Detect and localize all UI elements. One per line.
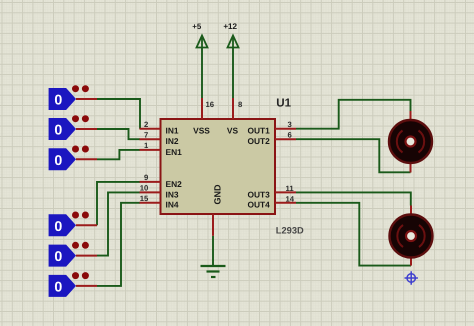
pin number 16 <box>206 100 215 109</box>
wire W3 probe3 to EN1 <box>97 150 140 159</box>
pin number 3 <box>288 120 292 129</box>
svg-text:0: 0 <box>54 123 62 139</box>
pin name VSS <box>193 126 210 136</box>
svg-text:GND: GND <box>213 184 223 205</box>
pin number 8 <box>238 100 243 109</box>
power symbol +12 arrow <box>228 36 239 48</box>
pin 8 stub VS <box>232 98 234 119</box>
svg-text:16: 16 <box>206 100 215 109</box>
logic state probe LS3 <box>49 146 97 171</box>
pin 11 stub OUT3 <box>275 191 296 193</box>
pin 1 stub EN1 <box>140 149 161 151</box>
svg-text:0: 0 <box>54 249 62 265</box>
wire OUT2 to motor1 bottom <box>296 139 411 172</box>
op-amp U1 body L293D <box>161 119 276 214</box>
svg-text:3: 3 <box>288 120 292 129</box>
logic state probe LS4 <box>49 212 97 237</box>
svg-text:0: 0 <box>54 219 62 235</box>
svg-text:OUT4: OUT4 <box>247 200 270 210</box>
svg-text:IN2: IN2 <box>166 136 179 146</box>
svg-text:IN3: IN3 <box>166 189 179 199</box>
wire +5 to VSS <box>201 48 203 100</box>
wire +12 to VS <box>232 48 234 100</box>
reference designator U1 <box>276 96 291 109</box>
svg-text:OUT2: OUT2 <box>247 136 270 146</box>
wire OUT4 to motor2 bottom <box>296 203 411 266</box>
wire W6 probe6 to IN4 <box>97 203 140 286</box>
value label L293D <box>276 225 304 235</box>
pin 2 stub IN1 <box>140 128 161 130</box>
svg-text:15: 15 <box>140 194 149 203</box>
pin number 2 <box>144 120 148 129</box>
svg-text:7: 7 <box>144 131 148 140</box>
wire W2 probe2 to IN2 <box>97 129 140 139</box>
pin name GND rotated <box>213 184 223 205</box>
svg-text:8: 8 <box>238 100 243 109</box>
power label +5 <box>192 22 202 31</box>
wire W5 probe5 to IN3 <box>97 192 140 255</box>
pin GND stub <box>212 214 214 236</box>
logic state probe LS5 <box>49 242 97 267</box>
pin name EN2 <box>166 179 183 189</box>
pin 10 stub IN3 <box>140 191 161 193</box>
power label +12 <box>223 22 237 31</box>
svg-text:VSS: VSS <box>193 126 210 136</box>
svg-text:+5: +5 <box>192 22 202 31</box>
pin name IN3 <box>166 189 179 199</box>
svg-text:0: 0 <box>54 93 62 109</box>
svg-text:1: 1 <box>144 141 149 150</box>
pin name IN1 <box>166 126 179 136</box>
svg-text:EN2: EN2 <box>166 179 183 189</box>
svg-text:VS: VS <box>227 126 239 136</box>
svg-text:14: 14 <box>286 194 295 203</box>
svg-text:2: 2 <box>144 120 148 129</box>
pin name EN1 <box>166 147 183 157</box>
svg-text:OUT1: OUT1 <box>247 126 270 136</box>
pin number 15 <box>140 194 149 203</box>
svg-text:IN4: IN4 <box>166 200 179 210</box>
pin name IN4 <box>166 200 179 210</box>
pin name OUT3 <box>247 189 270 199</box>
wire W4 probe4 to EN2 <box>97 182 140 225</box>
pin 16 stub VSS <box>201 98 203 119</box>
pin name OUT4 <box>247 200 270 210</box>
pin number 6 <box>288 131 292 140</box>
power symbol +5 arrow <box>197 36 208 48</box>
pin name IN2 <box>166 136 179 146</box>
wire W1 probe1 to IN1 <box>97 99 140 129</box>
pin 7 stub IN2 <box>140 138 161 140</box>
svg-text:IN1: IN1 <box>166 126 179 136</box>
pin 15 stub IN4 <box>140 202 161 204</box>
svg-text:0: 0 <box>54 153 62 169</box>
ground symbol <box>201 266 226 277</box>
logic state probe LS1 <box>49 85 97 110</box>
svg-text:L293D: L293D <box>276 225 304 235</box>
svg-text:11: 11 <box>286 184 295 193</box>
svg-text:10: 10 <box>140 184 149 193</box>
wire OUT3 to motor2 top <box>296 192 411 205</box>
motor M1 <box>389 111 432 173</box>
logic state probe LS2 <box>49 115 97 140</box>
logic state probe LS6 <box>49 272 97 297</box>
pin 6 stub OUT2 <box>275 138 296 140</box>
origin marker <box>405 271 418 284</box>
pin number 7 <box>144 131 148 140</box>
pin number 9 <box>144 173 148 182</box>
wire GND pin to ground <box>212 236 214 266</box>
pin 14 stub OUT4 <box>275 202 296 204</box>
pin number 10 <box>140 184 149 193</box>
pin name OUT1 <box>247 126 270 136</box>
pin name VS <box>227 126 239 136</box>
svg-text:+12: +12 <box>223 22 237 31</box>
motor M2 <box>390 206 433 266</box>
pin 3 stub OUT1 <box>275 128 296 130</box>
svg-text:0: 0 <box>54 279 62 295</box>
svg-text:9: 9 <box>144 173 148 182</box>
wire OUT1 to motor1 top <box>296 100 411 129</box>
pin 9 stub EN2 <box>140 181 161 183</box>
pin number 14 <box>286 194 295 203</box>
pin number 1 <box>144 141 149 150</box>
pin name OUT2 <box>247 136 270 146</box>
svg-text:U1: U1 <box>276 96 291 109</box>
svg-text:6: 6 <box>288 131 292 140</box>
svg-text:EN1: EN1 <box>166 147 183 157</box>
svg-text:OUT3: OUT3 <box>247 189 270 199</box>
pin number 11 <box>286 184 295 193</box>
